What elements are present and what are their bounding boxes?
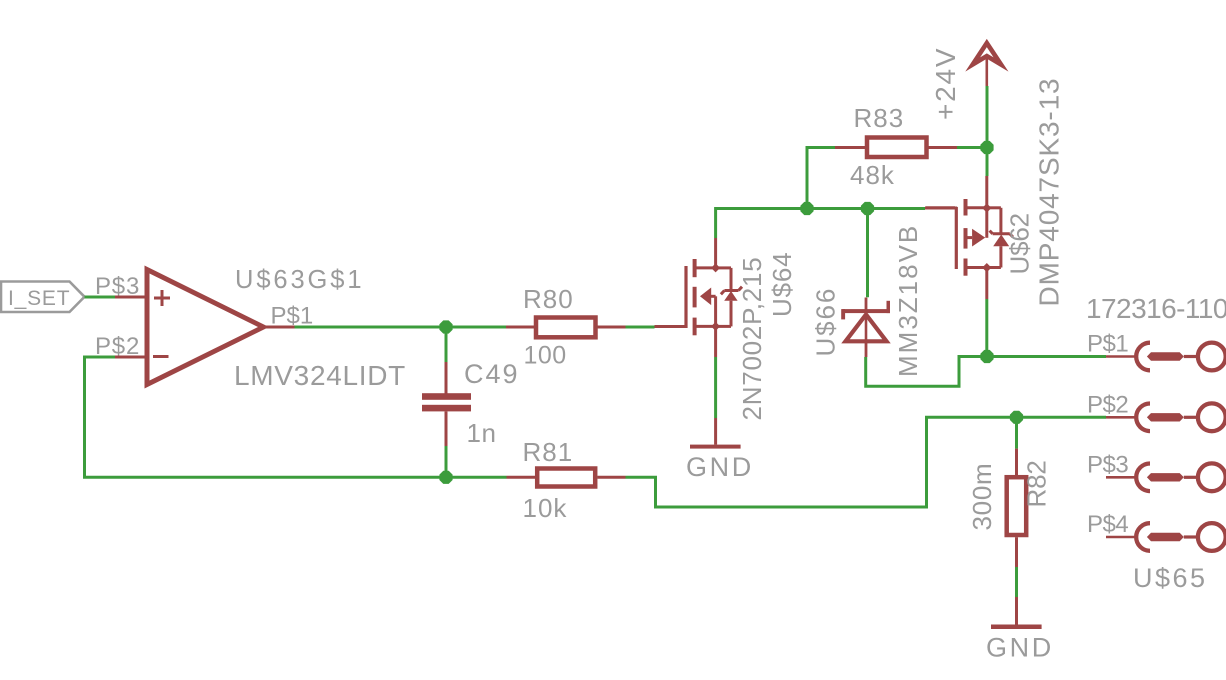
zener cathode pin stub — [865, 298, 868, 311]
svg-text:LMV324LIDT: LMV324LIDT — [234, 360, 406, 391]
junction output/C49 — [439, 320, 452, 333]
junction bus/R83 — [800, 202, 813, 215]
wire R82 to GND — [1015, 567, 1018, 597]
svg-text:P$3: P$3 — [1087, 451, 1128, 478]
wire R81 to P$2 net — [626, 417, 1107, 507]
op-amp pin P$2 stub — [115, 356, 147, 359]
op-amp output pin P$1 stub — [266, 326, 295, 329]
R80 right pin stub — [598, 326, 626, 329]
resistor R80 — [536, 318, 596, 338]
NMOS drain pin stub up — [714, 238, 717, 268]
wire R82 junction down — [1015, 417, 1018, 448]
NMOS gate pin stub — [655, 325, 686, 328]
transistor U$62 DMP4047SK3-13 PMOS — [926, 199, 1013, 276]
wire R83 right to +24V junction — [957, 146, 987, 149]
wire op-amp output to R80 — [295, 326, 507, 329]
svg-text:P$1: P$1 — [271, 303, 314, 330]
R81 left: wire from junction — [446, 476, 507, 479]
svg-text:U$65: U$65 — [1133, 563, 1208, 593]
NMOS source pin stub down — [714, 326, 717, 357]
resistor R82 (vertical) — [1007, 477, 1026, 535]
svg-text:P$2: P$2 — [1087, 391, 1128, 418]
zener anode pin stub — [865, 341, 868, 357]
op-amp U$63G$1 — [145, 266, 270, 389]
svg-text:MM3Z18VB: MM3Z18VB — [893, 224, 923, 377]
connector U$65 pin P$1 — [1106, 343, 1226, 371]
wire zener bottom to output junction — [866, 357, 987, 387]
svg-text:R82: R82 — [1022, 460, 1052, 507]
wire R83 left to bus junction — [807, 148, 835, 209]
svg-text:GND: GND — [986, 633, 1054, 663]
svg-text:P$3: P$3 — [95, 273, 140, 300]
wire junction down to C49 — [445, 327, 448, 362]
R80 left pin stub — [506, 326, 534, 329]
wire op-amp - input feedback (left vertical) — [85, 357, 447, 477]
svg-text:R80: R80 — [523, 284, 574, 314]
transistor Q U$64 2N7002P,215 NMOS — [686, 259, 742, 335]
svg-text:U$63G$1: U$63G$1 — [235, 266, 364, 294]
svg-text:R83: R83 — [854, 103, 905, 133]
svg-text:U$62: U$62 — [1005, 213, 1035, 274]
svg-text:U$64: U$64 — [767, 252, 797, 317]
wire I_SET to op-amp + input — [85, 296, 116, 299]
wire NMOS drain to bus — [716, 209, 925, 239]
R83 right pin stub — [929, 146, 958, 149]
capacitor C49 — [422, 393, 471, 411]
ground GND (R82) — [991, 625, 1042, 630]
junction +24V — [980, 141, 993, 154]
junction R82 top — [1010, 411, 1023, 424]
R83 left pin stub — [835, 146, 865, 149]
wire C49 to bottom bus — [445, 446, 448, 477]
ground GND (NMOS source) — [690, 445, 741, 449]
C49 top pin stub — [445, 362, 448, 394]
GND symbol pin — [714, 418, 717, 445]
resistor R81 — [537, 469, 595, 487]
junction bus/zener — [861, 202, 874, 215]
R82 bottom pin stub — [1015, 537, 1018, 567]
junction C49 bottom — [439, 471, 452, 484]
connector U$65 pin P$2 — [1106, 403, 1226, 431]
svg-text:48k: 48k — [850, 160, 895, 190]
svg-text:P$1: P$1 — [1087, 331, 1128, 358]
R81 right pin stub — [598, 476, 626, 479]
PMOS gate pin stub — [925, 207, 957, 210]
connector U$65 pin P$4 — [1106, 523, 1226, 551]
GND symbol pin (bottom) — [1015, 597, 1018, 625]
svg-text:GND: GND — [686, 452, 754, 482]
R82 top pin stub — [1015, 449, 1018, 477]
resistor R83 — [867, 138, 927, 158]
wire NMOS source to GND — [714, 357, 717, 418]
zener top: wire from bus junction — [866, 209, 869, 298]
svg-text:I_SET: I_SET — [8, 287, 70, 310]
+24V supply pin stub — [985, 54, 988, 86]
net flag I_SET — [1, 282, 85, 313]
svg-text:10k: 10k — [523, 493, 568, 523]
PMOS drain pin stub down — [985, 268, 988, 300]
wire junction to pin P$1 — [987, 355, 1106, 358]
svg-text:P$2: P$2 — [95, 333, 140, 360]
svg-text:DMP4047SK3-13: DMP4047SK3-13 — [1034, 78, 1065, 307]
PMOS source pin stub — [985, 176, 988, 208]
svg-text:2N7002P,215: 2N7002P,215 — [737, 257, 767, 421]
junction output node — [980, 350, 993, 363]
wire R80 to NMOS gate — [626, 326, 655, 329]
svg-text:P$4: P$4 — [1087, 511, 1128, 538]
svg-text:C49: C49 — [464, 359, 520, 389]
connector U$65 pin P$3 — [1106, 463, 1226, 491]
C49 bottom pin stub — [445, 412, 448, 447]
svg-text:U$66: U$66 — [811, 287, 841, 357]
wire PMOS drain to output junction — [985, 299, 988, 357]
wire +24V junction down to PMOS source — [986, 148, 989, 177]
op-amp pin P$3 stub — [115, 296, 147, 299]
svg-text:1n: 1n — [467, 418, 497, 448]
svg-text:300m: 300m — [967, 463, 997, 531]
svg-text:100: 100 — [524, 342, 567, 370]
svg-text:+24V: +24V — [930, 47, 961, 120]
svg-text:172316-1104: 172316-1104 — [1086, 293, 1226, 324]
wire junction up to +24V — [986, 86, 989, 148]
svg-text:R81: R81 — [523, 437, 574, 467]
R81 left pin stub — [507, 476, 538, 479]
zener diode U$66 MM3Z18VB — [841, 301, 890, 344]
supply symbol +24V arrow — [973, 43, 1001, 65]
